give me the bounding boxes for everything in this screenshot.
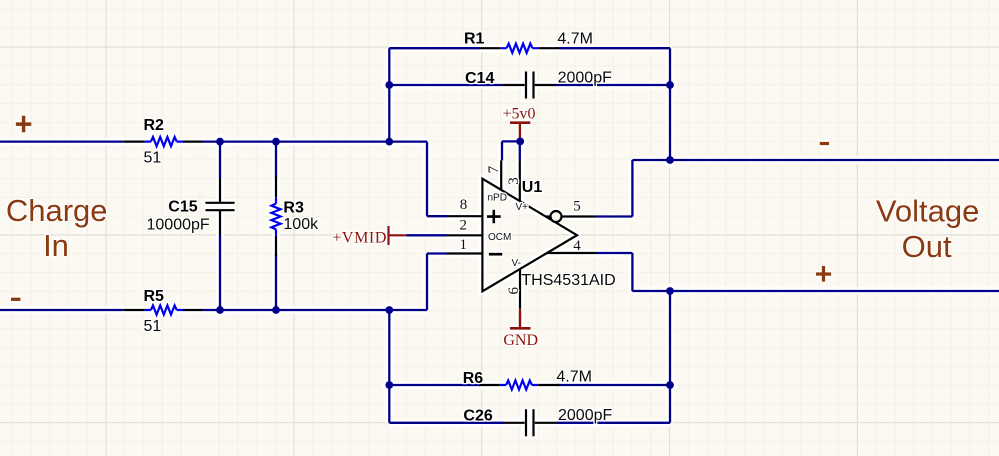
wire: R6 row left [389,384,481,386]
pin 1 [447,237,484,254]
svg-text:THS4531AID: THS4531AID [521,272,615,289]
pin 8 (nPD) [447,193,507,217]
op-amp minus symbol (inverting input) [489,253,502,256]
wire: bottom loop left vertical [388,310,390,423]
pin 3 (V+) [506,160,528,213]
wire: bottom input rail from left edge to R5 [0,309,124,311]
power port +5v0 [502,106,535,142]
wire: +VMID to pin 2 [407,234,447,236]
svg-text:4: 4 [573,238,581,254]
node label: plus terminal voltage output [816,266,831,282]
junction node: top rail / R3 [272,138,280,146]
svg-text:C26: C26 [463,408,492,425]
svg-text:R3: R3 [283,200,304,217]
wire: C26 row left [389,422,503,424]
svg-text:In: In [43,228,69,263]
wire: bottom output rail [632,290,999,292]
wire: C14 row left [389,84,502,86]
pin 5 output with inversion bubble [546,199,596,222]
svg-text:Voltage: Voltage [876,194,979,229]
node label: Voltage Out [876,194,979,265]
resistor R6 [463,369,592,390]
node label: Charge In [6,193,108,263]
pin 2 (OCM) [447,217,512,243]
svg-text:4.7M: 4.7M [557,31,593,48]
pin 4 output [547,238,596,254]
pin 6 (V-) [506,258,522,308]
svg-text:Out: Out [902,229,952,264]
capacitor C26 [463,407,612,436]
capacitor C14 [465,70,612,99]
svg-text:2: 2 [460,217,468,233]
junction node: top rail / R2-C15 [216,138,224,146]
junction node: R6 row right [666,381,674,389]
wire: C15 top vertical [219,142,221,179]
svg-text:8: 8 [460,197,468,213]
wire: top output rail [632,159,999,161]
junction node: +5v0 supply [516,138,524,146]
wire: right loop vertical down to output [669,85,671,160]
junction node: C14 row right [666,81,674,89]
wire: R1 feedback loop top-right [560,48,671,85]
wire: C15 bottom vertical [219,235,221,310]
capacitor C15 [147,179,235,235]
svg-text:2000pF: 2000pF [558,70,612,87]
svg-text:V-: V- [512,258,521,269]
svg-text:C15: C15 [168,199,197,216]
wire: pin 5 to top output [596,160,632,217]
svg-text:5: 5 [573,199,581,215]
wire: C14 row right [556,84,670,86]
svg-text:4.7M: 4.7M [556,369,592,386]
junction node: R6 row left [385,381,393,389]
wire: right output down to R6 loop [669,291,671,423]
wire: R3 top vertical [275,142,277,178]
wire: bottom input rail R5 to op-amp pin 1 [204,254,447,311]
resistor R5 [124,288,204,335]
junction node: bottom rail / bottom loop [385,306,393,314]
resistor R2 [124,117,204,167]
svg-text:3: 3 [506,177,522,185]
svg-text:nPD: nPD [488,193,507,204]
junction node: top output [666,156,674,164]
svg-text:R5: R5 [144,288,165,305]
svg-text:51: 51 [144,150,162,167]
power port +VMID [332,226,406,246]
junction node: bottom rail / C15 [216,306,224,314]
resistor R3 [271,177,319,257]
node label: plus terminal charge input [16,116,31,133]
svg-text:U1: U1 [522,179,543,196]
junction node: bottom rail / R3 [272,306,280,314]
wire: R6 row right [557,384,670,386]
wire: R1 feedback loop top-left [389,48,479,85]
junction node: C14 row left [385,81,393,89]
svg-text:2000pF: 2000pF [558,407,612,424]
svg-text:51: 51 [144,318,162,335]
junction node: top rail / feedback loop [385,138,393,146]
power port GND [503,308,538,349]
svg-text:C14: C14 [465,70,494,87]
junction node: bottom output [666,287,674,295]
op-amp U1 triangle [482,179,615,292]
resistor R1 [464,31,593,53]
svg-text:GND: GND [503,332,538,349]
wire: pin 4 to bottom output [595,253,632,291]
wire: left loop vertical down to input rail [388,85,390,142]
svg-text:10000pF: 10000pF [147,217,210,234]
wire: +5v0 junction to pin 7 [502,141,520,160]
wire: +5v0 junction to pin 3 [519,141,521,160]
pin 7 [486,160,502,190]
svg-text:R1: R1 [464,31,485,48]
svg-text:Charge: Charge [6,193,108,228]
svg-text:7: 7 [486,165,502,173]
svg-text:R2: R2 [144,117,165,134]
svg-text:V+: V+ [516,202,529,213]
op-amp plus symbol (non-inverting input) [487,210,501,223]
svg-text:6: 6 [506,287,522,295]
svg-text:100k: 100k [283,216,319,233]
svg-text:+VMID: +VMID [332,229,387,246]
wire: top input rail from left edge to R2 [0,140,124,142]
svg-text:R6: R6 [463,370,484,387]
svg-text:1: 1 [460,237,468,253]
wire: R3 bottom vertical [275,254,277,310]
svg-text:+5v0: +5v0 [502,106,535,123]
wire: top input rail R2 to op-amp pin 8 [204,142,447,217]
node label: minus terminal charge input [11,298,20,301]
node label: minus terminal voltage output [820,142,829,145]
svg-text:OCM: OCM [488,232,511,243]
wire: C26 row right [557,422,670,424]
